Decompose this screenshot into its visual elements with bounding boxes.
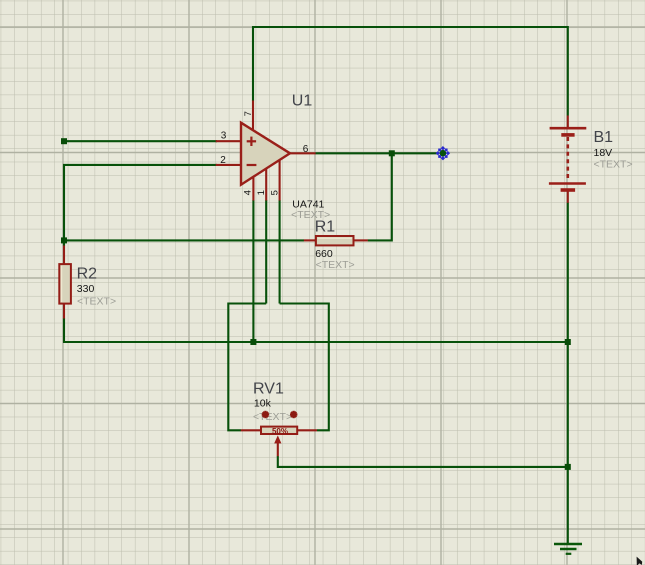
junction dot feedback node: [61, 237, 67, 243]
resistor R2 body: [59, 264, 71, 304]
battery B1 bottom lead: [567, 190, 569, 203]
potentiometer RV1 body: [261, 427, 297, 434]
junction dot input node: [61, 138, 67, 144]
svg-text:1: 1: [256, 190, 267, 195]
wire box right to RV1 terminal 3: [280, 304, 329, 431]
resistor R1 body: [316, 236, 354, 245]
op-amp U1 triangle body: [241, 123, 290, 185]
svg-text:<TEXT>: <TEXT>: [77, 296, 116, 308]
junction dot pin4 / ground rail: [250, 339, 256, 345]
wire pin 2 feedback left and down: [64, 165, 217, 246]
wire battery bottom to ground: [567, 203, 569, 545]
svg-text:6: 6: [303, 144, 309, 155]
wire R1 right riser to output: [368, 153, 392, 240]
svg-text:RV1: RV1: [253, 381, 284, 398]
svg-text:U1: U1: [292, 93, 313, 110]
svg-text:3: 3: [221, 130, 227, 141]
svg-text:50%: 50%: [272, 427, 288, 436]
wire pin 5 down: [279, 200, 281, 304]
wire R2 bottom to ground rail: [64, 318, 568, 342]
op-amp U1 pin 2 lead: [216, 164, 242, 166]
svg-text:10k: 10k: [254, 398, 272, 410]
op-amp U1 pin 5 lead: [279, 160, 281, 201]
resistor R1 right lead: [354, 239, 368, 241]
wire box left to RV1 terminal 1: [228, 304, 266, 431]
svg-text:<TEXT>: <TEXT>: [316, 259, 355, 271]
op-amp U1 plus input marker: [247, 137, 256, 146]
svg-text:<TEXT>: <TEXT>: [253, 411, 292, 423]
RV1 adjust control left: [262, 411, 269, 418]
op-amp U1 pin 1 lead: [265, 168, 267, 200]
junction dot wiper wire / battery column: [565, 464, 571, 470]
op-amp U1 pin 4 lead: [252, 176, 254, 200]
op-amp U1 pin 7 lead: [252, 101, 254, 132]
resistor R1 left lead: [304, 239, 316, 241]
node output terminal marker: [436, 146, 450, 160]
svg-text:5: 5: [269, 190, 280, 195]
potentiometer RV1 wiper lead: [277, 441, 279, 456]
svg-text:7: 7: [243, 111, 254, 116]
svg-text:2: 2: [220, 155, 226, 166]
junction dot ground rail / battery column: [565, 339, 571, 345]
potentiometer RV1 wiper arrowhead: [274, 435, 281, 443]
svg-text:<TEXT>: <TEXT>: [594, 159, 633, 171]
junction dot R1 riser / output: [389, 150, 395, 156]
wire feedback node to R1 left: [64, 239, 304, 241]
op-amp U1 pin 6 lead: [290, 152, 316, 154]
resistor R2 top lead: [63, 246, 65, 265]
RV1 adjust control right: [290, 411, 297, 418]
potentiometer RV1 left lead: [241, 429, 261, 431]
op-amp U1 pin 3 lead: [216, 140, 242, 142]
battery B1 top lead: [567, 116, 569, 129]
wire RV1 wiper to ground rail: [278, 456, 568, 467]
ground symbol: [554, 544, 582, 554]
wire pin 1 down: [265, 200, 267, 304]
wire input node to pin 3: [64, 140, 217, 142]
mouse cursor fragment: [637, 557, 643, 565]
svg-text:4: 4: [243, 190, 254, 195]
wire pin 4 down to ground rail: [252, 200, 254, 342]
battery B1 symbol plates: [549, 128, 586, 190]
op-amp U1 minus input marker: [247, 164, 257, 166]
wire output of op-amp: [315, 152, 439, 154]
svg-text:B1: B1: [594, 129, 614, 146]
svg-text:R1: R1: [315, 219, 336, 236]
resistor R2 bottom lead: [63, 304, 65, 319]
svg-text:330: 330: [77, 283, 95, 295]
svg-text:R2: R2: [77, 266, 98, 283]
svg-text:18V: 18V: [594, 147, 613, 159]
potentiometer RV1 right lead: [298, 429, 317, 431]
wire V+ rail from pin7 to battery top: [253, 27, 568, 116]
